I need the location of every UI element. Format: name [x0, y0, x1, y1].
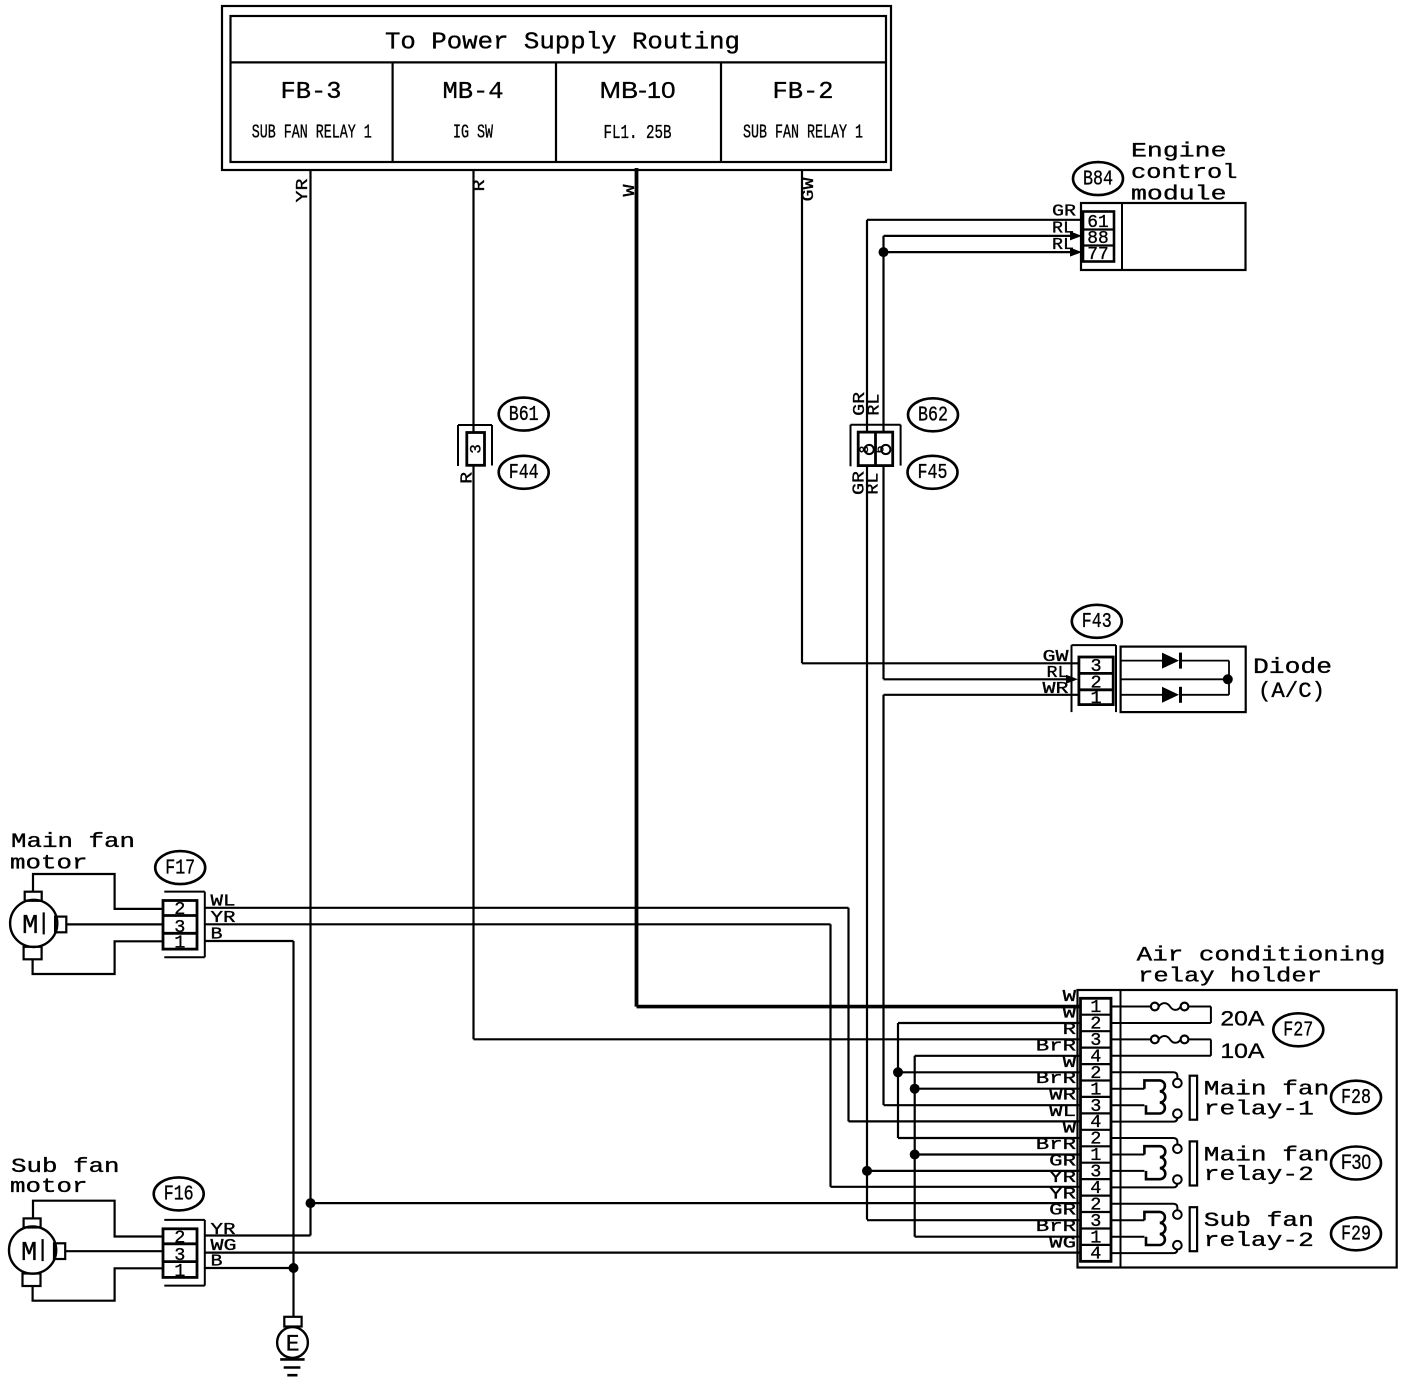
fuse 20A — [1111, 1003, 1265, 1031]
svg-text:F43: F43 — [1082, 611, 1112, 634]
engine control module U-B84 box — [1081, 141, 1246, 271]
svg-text:relay holder: relay holder — [1138, 966, 1322, 989]
wire WR vertical down to relay holder pin 3 — [882, 695, 884, 1105]
relay K2 main fan relay-2 — [1111, 1138, 1197, 1187]
wire RL from ECM pin 88 — [884, 220, 1075, 239]
wire YR from F17 pin 3 to relay holder — [205, 909, 1081, 1187]
wire sub fan motor to F16 pin 2 — [33, 1201, 163, 1237]
svg-text:F29: F29 — [1341, 1224, 1371, 1247]
svg-text:F45: F45 — [918, 462, 948, 485]
svg-text:FL1. 25B: FL1. 25B — [604, 122, 672, 144]
wire RL from ECM pin 77 — [884, 236, 1075, 255]
svg-text:control: control — [1131, 162, 1238, 185]
svg-text:M: M — [22, 912, 38, 942]
wire W fuse output vertical — [898, 1023, 1081, 1138]
node B ground junction — [289, 1263, 299, 1273]
svg-text:W: W — [621, 184, 640, 197]
svg-text:(A/C): (A/C) — [1258, 679, 1325, 704]
connector block To Power Supply Routing — [222, 6, 891, 170]
label Main fan relay-1 — [1204, 1079, 1330, 1122]
wire BrR fuse output vertical — [915, 1056, 1081, 1237]
connector oval B61 — [499, 398, 549, 431]
svg-text:B62: B62 — [918, 405, 948, 428]
node BrR junction row 6 — [910, 1084, 920, 1094]
svg-text:1: 1 — [174, 1261, 185, 1282]
svg-text:B: B — [211, 926, 223, 945]
connector oval F17 — [155, 851, 205, 884]
connector oval F28 — [1331, 1081, 1381, 1114]
svg-text:RL: RL — [865, 394, 884, 416]
svg-text:relay-1: relay-1 — [1204, 1099, 1314, 1122]
wire B from F16 pin 1 to ground — [205, 1253, 294, 1272]
wire diode cathode join — [1228, 661, 1230, 695]
svg-text:B84: B84 — [1083, 168, 1113, 191]
wire main fan motor to F17 pin 2 — [33, 874, 163, 909]
connector oval F30 — [1331, 1147, 1381, 1180]
svg-text:YR: YR — [294, 179, 313, 203]
connector oval F45 — [908, 456, 958, 489]
svg-text:IG SW: IG SW — [453, 122, 493, 144]
svg-text:6: 6 — [873, 446, 888, 454]
connector oval B84 — [1073, 162, 1123, 195]
svg-text:F27: F27 — [1283, 1020, 1313, 1043]
wire B from F17 pin 1 — [205, 926, 294, 1317]
wire main fan motor to F17 pin 3 — [66, 923, 163, 925]
svg-text:20A: 20A — [1220, 1007, 1265, 1031]
svg-text:8: 8 — [857, 446, 872, 454]
label Main fan motor — [10, 831, 135, 876]
svg-text:motor: motor — [10, 853, 88, 876]
connector oval F29 — [1331, 1217, 1381, 1250]
svg-text:MB-10: MB-10 — [600, 77, 676, 103]
pin 77 arrow — [1070, 248, 1082, 257]
svg-text:FB-3: FB-3 — [281, 79, 342, 106]
wire YR horizontal to relay holder pin 2 — [311, 1202, 1082, 1204]
svg-text:B61: B61 — [509, 404, 539, 427]
svg-text:To Power Supply Routing: To Power Supply Routing — [385, 30, 740, 57]
svg-text:F30: F30 — [1341, 1151, 1371, 1174]
fuse 10A — [1111, 1036, 1265, 1064]
diode pin 2 arrow — [1066, 675, 1078, 684]
wire GR vertical to B62 and relay holder — [866, 220, 868, 1220]
wire W thick from MB-10 to relay holder pin 1 — [621, 168, 1081, 1007]
svg-text:1: 1 — [174, 933, 185, 954]
svg-text:3: 3 — [467, 444, 485, 454]
svg-text:relay-2: relay-2 — [1204, 1230, 1314, 1253]
svg-text:10A: 10A — [1220, 1039, 1265, 1063]
wire sub fan motor to F16 pin 1 — [33, 1268, 163, 1300]
svg-text:module: module — [1131, 184, 1227, 207]
relay holder pin strip — [1081, 997, 1112, 1265]
svg-text:Air conditioning: Air conditioning — [1137, 945, 1386, 968]
svg-text:motor: motor — [10, 1176, 88, 1199]
diode A/C box — [1121, 647, 1246, 713]
svg-text:Engine: Engine — [1131, 141, 1227, 164]
svg-text:4: 4 — [1090, 1244, 1101, 1265]
connector oval B62 — [908, 398, 958, 431]
node W junction row 5 — [893, 1067, 903, 1077]
label Sub fan relay-2 — [1204, 1210, 1314, 1253]
air conditioning relay holder box — [1078, 990, 1397, 1268]
wire YR from FB-3 down to junction and sub fan connector F16 — [205, 170, 313, 1236]
wire WR from diode pin 1 — [884, 680, 1080, 699]
node YR junction — [306, 1198, 316, 1208]
svg-text:R: R — [471, 180, 490, 192]
wire GW from FB-2 down to diode connector F43 pin 3 — [800, 170, 1079, 663]
svg-text:77: 77 — [1087, 244, 1109, 265]
relay K3 sub fan relay-2 — [1111, 1204, 1197, 1253]
connector oval F44 — [499, 456, 549, 489]
svg-text:GW: GW — [800, 177, 819, 202]
svg-text:F17: F17 — [165, 857, 195, 880]
connector F17 pins 2 3 1 — [163, 892, 205, 958]
connector oval F16 — [154, 1177, 204, 1210]
svg-text:E: E — [286, 1332, 300, 1358]
diode D1 top — [1162, 653, 1229, 669]
connector oval F43 — [1072, 605, 1122, 638]
svg-text:relay-2: relay-2 — [1204, 1164, 1314, 1187]
svg-text:SUB FAN RELAY 1: SUB FAN RELAY 1 — [743, 122, 863, 144]
wire RL from B62 to diode pin 2 — [884, 664, 1071, 683]
wire GR to relay holder rows 11 14 — [867, 1171, 1081, 1220]
node GR junction row 11 — [862, 1166, 872, 1176]
node BrR junction row 10 — [910, 1150, 920, 1160]
label Sub fan motor — [10, 1156, 120, 1199]
svg-text:Main fan: Main fan — [11, 831, 135, 854]
svg-text:Diode: Diode — [1253, 655, 1332, 680]
diode connector F43 pin box pins 3 2 1 — [1072, 645, 1117, 712]
diode D2 bottom — [1162, 687, 1229, 703]
motor M2 sub fan — [9, 1218, 65, 1286]
svg-text:R: R — [459, 472, 478, 484]
svg-text:F44: F44 — [509, 462, 539, 485]
pin 88 arrow — [1070, 231, 1082, 240]
connector oval F27 — [1273, 1013, 1323, 1046]
motor M1 main fan — [10, 892, 66, 960]
label Diode (A/C) — [1253, 655, 1332, 704]
svg-text:MB-4: MB-4 — [443, 79, 504, 106]
svg-text:1: 1 — [1090, 688, 1101, 709]
node RL junction at ECM — [879, 247, 889, 257]
svg-text:RL: RL — [865, 473, 884, 495]
inline connector B62/F45 pins 8 6 — [851, 425, 901, 467]
ground E symbol — [277, 1317, 308, 1375]
svg-text:FB-2: FB-2 — [773, 79, 834, 106]
svg-text:B: B — [211, 1253, 223, 1272]
wire WR to relay holder row 7 — [884, 1104, 1082, 1106]
connector F16 pins 2 3 1 — [163, 1220, 205, 1286]
node diode output junction — [1223, 674, 1233, 684]
wire RL vertical to B62 and diode — [882, 236, 884, 679]
svg-text:F28: F28 — [1341, 1087, 1371, 1110]
svg-text:WR: WR — [1043, 680, 1069, 699]
svg-text:F16: F16 — [164, 1184, 194, 1207]
wire WG from F16 pin 3 to relay holder pin 4 — [205, 1237, 1081, 1256]
wire GR from ECM pin 61 — [867, 203, 1083, 222]
label Air conditioning relay holder — [1137, 945, 1386, 989]
inline connector B61/F44 pin 3 — [458, 425, 492, 466]
wire main fan motor to F17 pin 1 — [33, 941, 163, 974]
svg-text:SUB FAN RELAY 1: SUB FAN RELAY 1 — [252, 122, 372, 144]
ECM pin box pins 61 88 77 — [1083, 212, 1114, 266]
relay K1 main fan relay-1 — [1111, 1072, 1197, 1121]
label Main fan relay-2 — [1204, 1144, 1330, 1187]
wire WL from F17 pin 2 to relay holder — [205, 892, 1081, 1121]
wire R from MB-4 down through B61 to relay holder pin 3 — [471, 170, 1081, 1039]
wire sub fan motor to F16 pin 3 — [65, 1250, 163, 1252]
svg-text:M: M — [21, 1239, 37, 1269]
